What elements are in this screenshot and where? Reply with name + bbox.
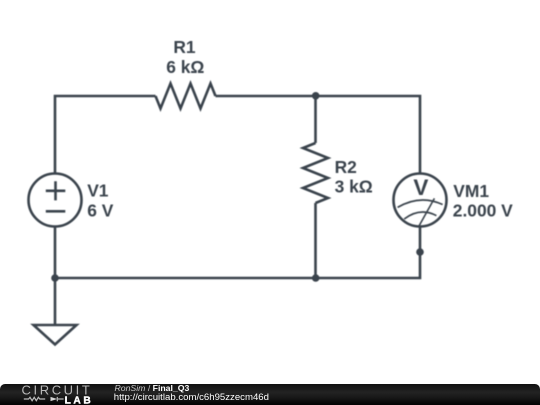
svg-text:V1: V1 <box>87 181 109 201</box>
junction node: voltmeter bottom terminal <box>416 248 424 256</box>
svg-text:V: V <box>413 175 428 200</box>
VM1 needle <box>419 198 434 226</box>
CircuitLab logo <box>0 384 100 405</box>
junction node: bottom of V1 column on bottom net <box>51 274 59 282</box>
svg-text:R2: R2 <box>335 157 357 177</box>
junction node: bottom of R2 on bottom net <box>312 274 320 282</box>
wire: R2 column vertical lower segment <box>314 203 317 278</box>
svg-text:3 kΩ: 3 kΩ <box>335 176 373 196</box>
V1 minus sign <box>46 210 66 213</box>
svg-text:6 V: 6 V <box>87 200 114 220</box>
wire: R2 column vertical upper segment <box>314 96 317 143</box>
wire: V1 bottom terminal, bottom net, up to voltmeter bottom terminal <box>55 226 420 278</box>
wire: V1 top terminal up and across to R1 (corner at top-left) <box>55 96 156 174</box>
svg-text:6 kΩ: 6 kΩ <box>166 57 204 77</box>
wire: from R1 across and down to voltmeter top terminal (corner at top-right) <box>216 96 421 174</box>
caption texts <box>115 384 190 393</box>
footer bar <box>0 384 540 405</box>
VM1 meter scale upper arc <box>398 200 443 207</box>
svg-text:R1: R1 <box>173 37 196 57</box>
svg-text:LAB: LAB <box>65 395 94 405</box>
wire: ground stub below bottom net <box>54 278 57 325</box>
V1 plus sign <box>46 181 66 200</box>
svg-text:2.000 V: 2.000 V <box>453 201 513 221</box>
VM1 meter scale lower arc <box>404 212 436 219</box>
voltmeter VM1 circle <box>394 174 447 227</box>
junction node: top of R2 on top net <box>312 92 320 100</box>
logo resistor squiggle and diode <box>24 397 64 401</box>
voltage source V1 circle <box>29 174 82 227</box>
ground symbol triangle <box>34 325 77 345</box>
resistor R2 zigzag <box>303 143 328 203</box>
svg-text:VM1: VM1 <box>453 181 489 201</box>
resistor R1 zigzag <box>156 84 216 109</box>
